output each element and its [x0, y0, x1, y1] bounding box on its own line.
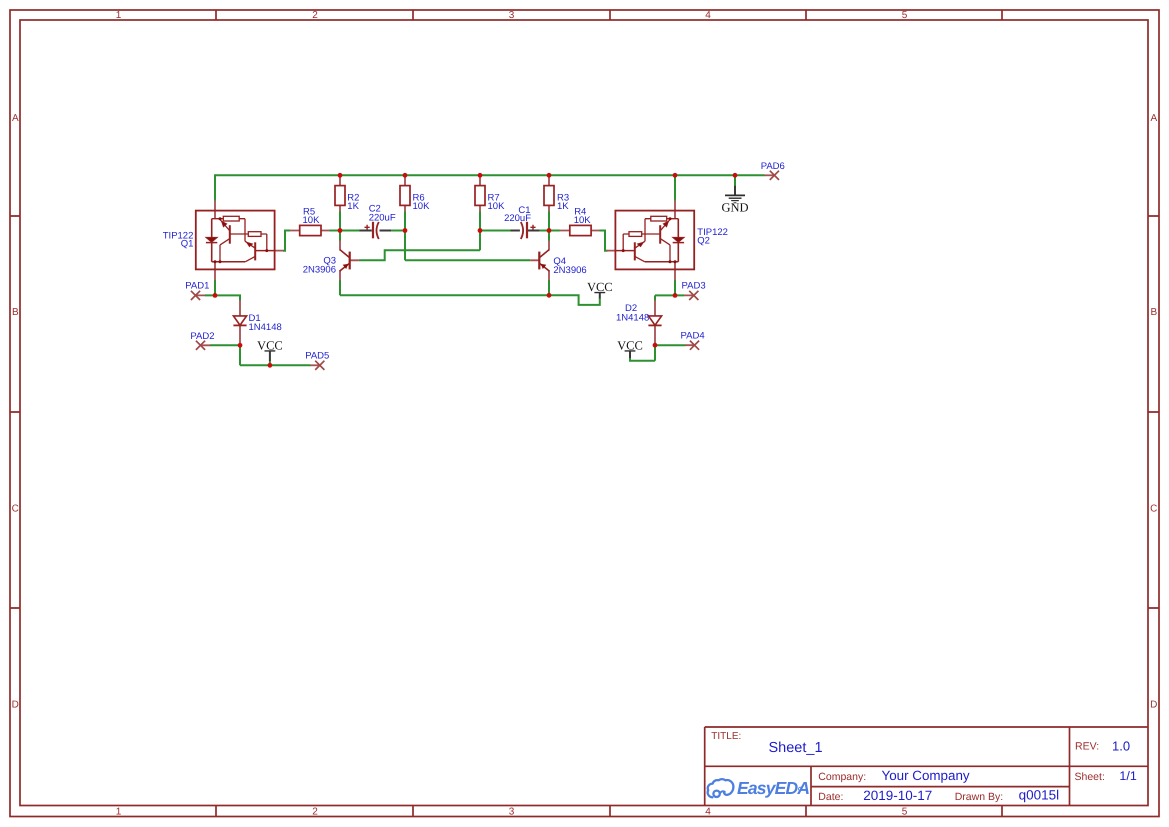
svg-text:D: D	[1150, 700, 1157, 711]
svg-text:1K: 1K	[347, 201, 359, 212]
svg-text:2: 2	[312, 10, 318, 21]
svg-text:5: 5	[902, 807, 908, 818]
svg-text:VCC: VCC	[617, 338, 643, 352]
svg-text:3: 3	[509, 807, 515, 818]
svg-text:1K: 1K	[557, 201, 569, 212]
svg-text:PAD3: PAD3	[682, 280, 706, 291]
svg-text:10K: 10K	[303, 215, 321, 226]
svg-text:5: 5	[902, 10, 908, 21]
svg-text:PAD4: PAD4	[681, 330, 705, 341]
svg-text:2019-10-17: 2019-10-17	[863, 788, 932, 803]
svg-text:10K: 10K	[413, 201, 431, 212]
svg-text:VCC: VCC	[257, 338, 283, 352]
svg-text:A: A	[1150, 113, 1157, 124]
svg-text:2: 2	[312, 807, 318, 818]
svg-text:GND: GND	[721, 201, 748, 215]
svg-text:1N4148: 1N4148	[249, 322, 282, 333]
svg-text:2N3906: 2N3906	[553, 265, 586, 276]
svg-text:1: 1	[116, 807, 122, 818]
svg-text:Company:: Company:	[818, 771, 866, 783]
svg-text:A: A	[12, 113, 19, 124]
svg-text:q0015l: q0015l	[1019, 788, 1060, 803]
svg-text:C: C	[12, 504, 19, 515]
svg-text:REV:: REV:	[1075, 741, 1099, 753]
svg-text:Drawn By:: Drawn By:	[955, 791, 1003, 803]
svg-text:B: B	[12, 307, 19, 318]
svg-text:Q1: Q1	[181, 239, 194, 250]
svg-text:PAD5: PAD5	[305, 351, 329, 362]
svg-text:1N4148: 1N4148	[616, 313, 649, 324]
svg-text:Sheet_1: Sheet_1	[769, 740, 823, 756]
svg-text:4: 4	[705, 807, 711, 818]
svg-text:TITLE:: TITLE:	[711, 731, 741, 742]
svg-text:PAD6: PAD6	[761, 161, 785, 172]
svg-text:PAD1: PAD1	[185, 280, 209, 291]
svg-text:1.0: 1.0	[1112, 739, 1130, 754]
svg-text:Your Company: Your Company	[882, 768, 970, 783]
svg-text:10K: 10K	[488, 201, 506, 212]
svg-text:C: C	[1150, 504, 1157, 515]
svg-text:3: 3	[509, 10, 515, 21]
svg-text:220uF: 220uF	[369, 212, 396, 223]
svg-text:D: D	[12, 700, 19, 711]
svg-text:Q2: Q2	[697, 236, 710, 247]
svg-text:4: 4	[705, 10, 711, 21]
svg-text:PAD2: PAD2	[190, 331, 214, 342]
svg-text:220uF: 220uF	[504, 213, 531, 224]
svg-text:B: B	[1150, 307, 1157, 318]
svg-text:Sheet:: Sheet:	[1075, 771, 1105, 783]
svg-text:1: 1	[116, 10, 122, 21]
svg-text:VCC: VCC	[587, 280, 613, 294]
svg-text:1/1: 1/1	[1119, 769, 1136, 783]
svg-text:10K: 10K	[574, 215, 592, 226]
svg-text:Date:: Date:	[818, 791, 843, 803]
svg-text:2N3906: 2N3906	[303, 265, 336, 276]
